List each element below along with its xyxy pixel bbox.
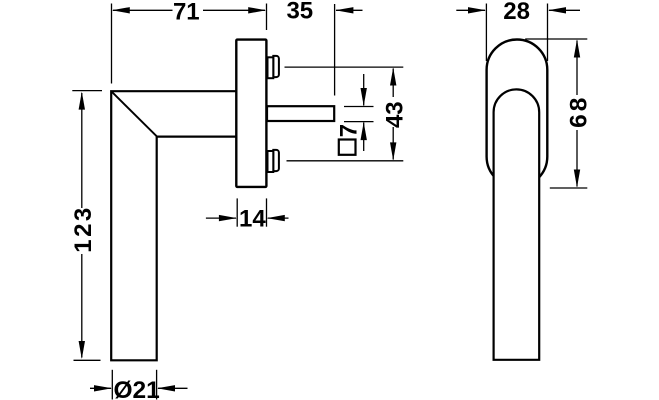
svg-text:14: 14 [239, 206, 266, 233]
screw S2 (bottom, side view) [268, 150, 279, 172]
dimension Ø21 [90, 370, 188, 400]
dimension 35 [334, 4, 336, 96]
dimension 123 [72, 91, 102, 361]
dimension 14 [206, 198, 289, 226]
dimension 28 [456, 4, 580, 62]
rose plate (front view) [236, 40, 266, 187]
svg-text:28: 28 [503, 0, 530, 25]
svg-text:7: 7 [336, 124, 363, 137]
svg-text:Ø21: Ø21 [113, 377, 159, 400]
screw S1 (top, side view) [268, 56, 279, 78]
svg-text:68: 68 [565, 95, 592, 128]
dimension 7 (square spindle) [344, 74, 374, 151]
dimension 71 [112, 4, 267, 84]
handle miter edge [111, 91, 157, 136]
dimension 43 [285, 67, 404, 161]
spindle bar (square spindle, front view) [267, 106, 334, 121]
dimension 68 [525, 39, 587, 188]
rose (side view, stadium outline) [487, 40, 548, 187]
svg-text:71: 71 [173, 0, 200, 26]
svg-text:43: 43 [382, 101, 409, 128]
svg-text:123: 123 [70, 205, 97, 253]
grip (side view, rounded-top bar) [494, 89, 540, 359]
square symbol of 7 [339, 140, 356, 155]
svg-text:35: 35 [286, 0, 313, 25]
handle outline (front view, L-shaped lever) [111, 91, 236, 360]
